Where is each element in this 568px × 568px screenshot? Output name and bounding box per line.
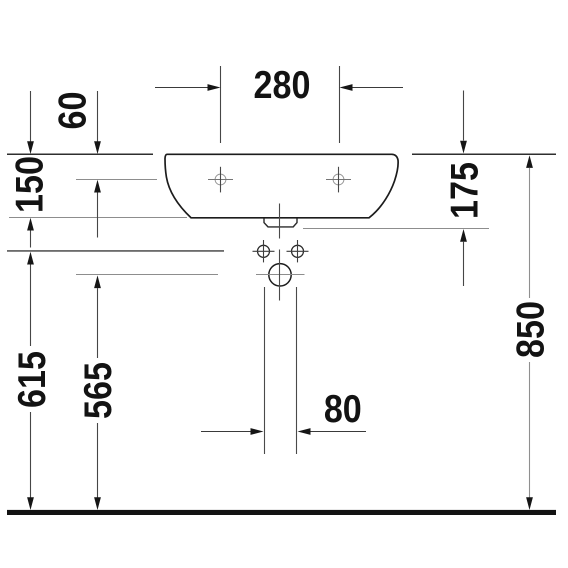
svg-text:850: 850 — [509, 301, 553, 358]
svg-text:80: 80 — [324, 387, 362, 431]
svg-text:280: 280 — [254, 63, 311, 107]
svg-text:175: 175 — [442, 162, 486, 219]
svg-text:60: 60 — [51, 92, 95, 130]
svg-text:565: 565 — [76, 362, 120, 419]
svg-text:615: 615 — [10, 351, 54, 408]
svg-text:150: 150 — [7, 156, 51, 213]
